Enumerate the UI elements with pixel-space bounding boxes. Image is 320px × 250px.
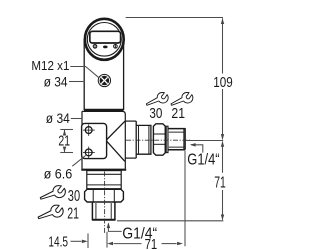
svg-text:30: 30 [68,188,81,205]
svg-text:71: 71 [145,236,158,250]
svg-text:21: 21 [67,206,79,223]
svg-text:ø 6.6: ø 6.6 [44,166,73,182]
svg-text:ø 34: ø 34 [46,110,70,126]
svg-text:71: 71 [214,174,226,191]
svg-text:21: 21 [58,133,70,150]
svg-text:G1/4“: G1/4“ [187,152,219,169]
svg-text:M12 x1: M12 x1 [31,58,69,73]
svg-text:14.5: 14.5 [48,234,68,250]
svg-text:21: 21 [171,105,185,122]
svg-text:109: 109 [213,74,233,91]
svg-text:30: 30 [149,105,162,122]
svg-text:ø 34: ø 34 [44,73,68,89]
